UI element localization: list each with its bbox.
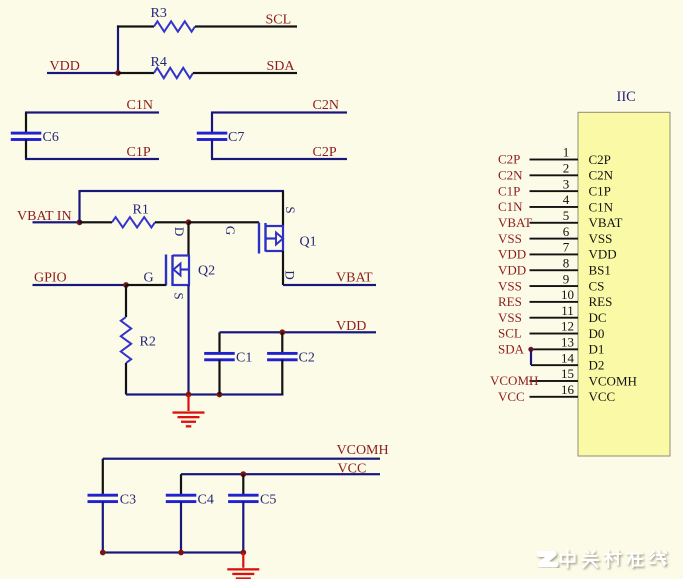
pin number 9 [563, 271, 570, 286]
svg-text:4: 4 [563, 192, 570, 207]
svg-text:16: 16 [561, 382, 575, 397]
wire top rail to Q1 source [80, 190, 285, 192]
wire R1 to node [155, 221, 189, 223]
net label C2N [313, 98, 339, 113]
node Q2 source / ground junction [186, 392, 192, 398]
svg-text:C1P: C1P [498, 183, 520, 198]
svg-text:S: S [172, 292, 187, 299]
wire R4 left segment [118, 72, 154, 74]
watermark text 中关村在线 [561, 551, 666, 568]
svg-text:VSS: VSS [589, 231, 613, 246]
net label GPIO [34, 271, 67, 286]
pin name BS1 (pin 8) [589, 263, 611, 278]
net label VDD at pin 7 [498, 247, 526, 262]
ground GND1 [173, 395, 205, 428]
svg-text:D1: D1 [589, 342, 605, 357]
pin name VBAT (pin 5) [589, 215, 623, 230]
wire C2N [211, 111, 347, 113]
wire C6 top lead [25, 113, 27, 134]
net label C2P at pin 1 [498, 152, 520, 167]
wire pin 16 stub [530, 396, 579, 398]
wire Q2 source [187, 285, 189, 395]
wire VBAT IN [33, 221, 80, 223]
svg-text:DC: DC [589, 310, 607, 325]
wire pin 12 stub [530, 333, 579, 335]
capacitor C2 [267, 351, 315, 366]
net label C1N [127, 98, 153, 113]
svg-text:G: G [144, 271, 154, 286]
net label VCC bottom [338, 462, 367, 477]
wire C2P [211, 158, 347, 160]
wire C1 top lead [218, 332, 220, 353]
pin name RES (pin 10) [589, 294, 613, 309]
wire pin 6 stub [530, 238, 579, 240]
pin number 1 [563, 145, 570, 160]
svg-text:VCOMH: VCOMH [337, 443, 389, 458]
wire C4 bottom lead [180, 502, 182, 553]
svg-text:BS1: BS1 [589, 263, 611, 278]
wire Q1 source [282, 191, 284, 226]
pin name C2P (pin 1) [589, 152, 611, 167]
svg-text:C2P: C2P [313, 145, 337, 160]
resistor R2 [121, 317, 156, 363]
transistor Q2 [165, 254, 215, 286]
node C3 rail junction [100, 550, 106, 556]
node GPIO/R2 junction [123, 282, 129, 288]
svg-text:R3: R3 [151, 6, 167, 21]
pin name C1P (pin 3) [589, 183, 611, 198]
pin label D of Q1 [282, 270, 297, 279]
wire C3 bottom lead [102, 502, 104, 553]
wire pin 9 stub [530, 285, 579, 287]
wire VDD mid rail [220, 331, 377, 333]
wire C7 top lead [211, 113, 213, 134]
svg-text:VDD: VDD [589, 247, 617, 262]
pin number 2 [563, 161, 570, 176]
node VBAT IN junction [77, 219, 83, 225]
pin name DC (pin 11) [589, 310, 607, 325]
svg-text:SCL: SCL [498, 326, 522, 341]
svg-text:CS: CS [589, 278, 605, 293]
pin name VCOMH (pin 15) [589, 373, 637, 388]
pin name D2 (pin 14) [589, 358, 605, 373]
svg-text:VCC: VCC [498, 389, 525, 404]
node C2/VDD junction [279, 329, 285, 335]
wire C7 bottom lead [211, 140, 213, 160]
svg-text:2: 2 [563, 161, 570, 176]
svg-text:11: 11 [561, 303, 574, 318]
node C5 rail junction [240, 550, 246, 556]
wire C1 bottom lead [218, 360, 220, 395]
svg-text:VCC: VCC [589, 389, 616, 404]
pin number 11 [561, 303, 574, 318]
wire pin 4 stub [530, 206, 579, 208]
svg-text:9: 9 [563, 271, 570, 286]
net label VBAT at pin 5 [498, 215, 532, 230]
net label SDA at pin 13 [498, 342, 525, 357]
wire VBAT [283, 284, 376, 286]
wire C5 bottom lead [242, 502, 244, 553]
node VDD junction [115, 70, 121, 76]
wire VDD to junction [47, 72, 118, 74]
net label SCL at pin 12 [498, 326, 522, 341]
pin number 14 [561, 350, 575, 365]
svg-text:C1N: C1N [589, 199, 614, 214]
svg-text:C7: C7 [228, 130, 244, 145]
pin number 12 [561, 319, 574, 334]
svg-text:RES: RES [498, 294, 522, 309]
svg-text:R1: R1 [133, 203, 149, 218]
svg-text:Q1: Q1 [300, 235, 317, 250]
svg-text:VSS: VSS [498, 231, 522, 246]
pin name VSS (pin 6) [589, 231, 613, 246]
capacitor C7 [197, 130, 245, 145]
net label VDD at pin 8 [498, 262, 526, 277]
wire C2 bottom lead [281, 360, 283, 395]
net label C1P at pin 3 [498, 183, 520, 198]
svg-text:VBAT: VBAT [498, 215, 532, 230]
net label VBAT IN [17, 209, 72, 224]
svg-text:8: 8 [563, 255, 570, 270]
svg-text:D: D [282, 270, 297, 279]
svg-text:VDD: VDD [498, 262, 526, 277]
svg-text:C3: C3 [120, 493, 136, 508]
pin name C1N (pin 4) [589, 199, 614, 214]
pin number 16 [561, 382, 575, 397]
net label VCC at pin 16 [498, 389, 525, 404]
svg-text:GPIO: GPIO [34, 271, 67, 286]
capacitor C5 [228, 493, 276, 508]
ground GND2 [227, 553, 259, 579]
pin number 5 [563, 208, 570, 223]
pin number 13 [561, 335, 574, 350]
wire pin 1 stub [530, 159, 579, 161]
pin label G of Q1 [223, 226, 238, 235]
transistor Q1 [258, 223, 317, 254]
wire VCOMH [103, 458, 380, 460]
capacitor C1 [204, 351, 252, 366]
wire C6 bottom lead [25, 140, 27, 160]
svg-text:D2: D2 [589, 358, 605, 373]
net label VSS at pin 9 [498, 278, 522, 293]
svg-text:C2N: C2N [313, 98, 339, 113]
net label SCL [266, 13, 292, 28]
svg-text:6: 6 [563, 224, 570, 239]
node R1/Q2 drain junction [186, 219, 192, 225]
wire R1 left segment [80, 221, 113, 223]
wire pin 15 stub [530, 380, 579, 382]
svg-text:R4: R4 [151, 55, 167, 70]
wire pin 7 stub [530, 253, 579, 255]
pin name D0 (pin 12) [589, 326, 605, 341]
wire GPIO [33, 284, 127, 286]
svg-text:IIC: IIC [617, 89, 636, 105]
svg-text:C2P: C2P [589, 152, 611, 167]
wire bottom rail [126, 393, 283, 395]
svg-text:D0: D0 [589, 326, 605, 341]
svg-text:D: D [172, 227, 187, 236]
wire node to Q1 gate [189, 221, 260, 223]
net label VCOMH bottom [337, 443, 389, 458]
svg-text:VSS: VSS [498, 310, 522, 325]
svg-text:C6: C6 [43, 130, 59, 145]
wire Q2 drain [187, 222, 189, 255]
net label RES at pin 10 [498, 294, 522, 309]
svg-text:VDD: VDD [498, 247, 526, 262]
node SDA junction at pin 13 [528, 347, 533, 352]
net label VBAT [336, 271, 373, 286]
svg-text:VBAT: VBAT [336, 271, 373, 286]
pin number 3 [563, 176, 570, 191]
capacitor C3 [88, 493, 137, 508]
wire R3 left segment [117, 25, 154, 27]
svg-text:G: G [223, 226, 238, 235]
svg-text:10: 10 [561, 287, 574, 302]
svg-text:SDA: SDA [267, 59, 296, 74]
svg-text:C1P: C1P [589, 183, 611, 198]
wire C4 top lead [180, 474, 182, 495]
svg-text:1: 1 [563, 145, 570, 160]
svg-text:15: 15 [561, 366, 574, 381]
svg-text:SCL: SCL [266, 13, 292, 28]
capacitor C6 [11, 130, 59, 145]
svg-text:VDD: VDD [336, 319, 366, 334]
net label VDD [50, 59, 80, 74]
svg-text:C2: C2 [299, 351, 315, 366]
wire R3 to SCL [195, 25, 297, 27]
wire pin 11 stub [530, 317, 579, 319]
svg-text:RES: RES [589, 294, 613, 309]
svg-text:C5: C5 [260, 493, 276, 508]
pin number 7 [563, 240, 570, 255]
pin name D1 (pin 13) [589, 342, 605, 357]
svg-text:C1: C1 [236, 351, 252, 366]
wire SDA to pin 14 [530, 349, 532, 365]
pin number 10 [561, 287, 574, 302]
wire pin 5 stub [530, 222, 579, 224]
svg-text:VBAT: VBAT [589, 215, 623, 230]
svg-text:C4: C4 [198, 493, 214, 508]
wire VCC [181, 473, 380, 475]
pin number 4 [563, 192, 570, 207]
svg-text:VCOMH: VCOMH [589, 373, 637, 388]
net label SDA [267, 59, 296, 74]
node C4 rail junction [178, 550, 184, 556]
wire pin 3 stub [530, 190, 579, 192]
svg-text:VSS: VSS [498, 278, 522, 293]
svg-text:SDA: SDA [498, 342, 525, 357]
pin name CS (pin 9) [589, 278, 605, 293]
wire pin 2 stub [530, 174, 579, 176]
svg-text:C2N: C2N [498, 168, 523, 183]
node C1 bottom junction [217, 392, 223, 398]
net label C1N at pin 4 [498, 199, 523, 214]
svg-text:3: 3 [563, 176, 570, 191]
pin name C2N (pin 2) [589, 168, 614, 183]
node C5/VCC junction [240, 471, 246, 477]
svg-text:13: 13 [561, 335, 574, 350]
net label VCOMH at pin 15 [490, 373, 538, 388]
pin number 15 [561, 366, 574, 381]
resistor R1 [112, 203, 155, 228]
svg-text:Q2: Q2 [198, 264, 215, 279]
wire R4 to SDA [193, 72, 297, 74]
svg-text:VDD: VDD [50, 59, 80, 74]
wire C5 top lead [242, 474, 244, 495]
wire pin 8 stub [530, 269, 579, 271]
wire GPIO node to Q2 gate [126, 284, 166, 286]
net label C2N at pin 2 [498, 168, 523, 183]
net label C1P [127, 145, 151, 160]
net label VDD mid [336, 319, 366, 334]
part label IIC [617, 89, 636, 105]
pin label D of Q2 [172, 227, 187, 236]
net label C2P [313, 145, 337, 160]
svg-text:VCOMH: VCOMH [490, 373, 538, 388]
svg-text:C2P: C2P [498, 152, 520, 167]
wire C2 top lead [281, 332, 283, 353]
capacitor C4 [166, 493, 214, 508]
resistor R3 [151, 6, 196, 32]
svg-text:7: 7 [563, 240, 570, 255]
svg-text:5: 5 [563, 208, 570, 223]
pin label G of Q2 [144, 271, 154, 286]
wire VDD vertical riser to R3 [117, 25, 119, 73]
pin number 6 [563, 224, 570, 239]
wire Q1 drain [282, 251, 284, 285]
wire C1P [25, 158, 159, 160]
svg-text:S: S [283, 206, 298, 213]
pin name VCC (pin 16) [589, 389, 616, 404]
net label VSS at pin 6 [498, 231, 522, 246]
svg-text:C1N: C1N [498, 199, 523, 214]
wire pin 10 stub [530, 301, 579, 303]
wire riser to top rail [78, 190, 80, 222]
wire bottom-section rail [103, 551, 244, 553]
svg-text:R2: R2 [140, 335, 156, 350]
net label VSS at pin 11 [498, 310, 522, 325]
svg-text:12: 12 [561, 319, 574, 334]
svg-text:C1P: C1P [127, 145, 151, 160]
pin name VDD (pin 7) [589, 247, 617, 262]
wire pin 14 stub [531, 364, 578, 366]
wire C1N [25, 111, 159, 113]
wire C3 top lead [102, 459, 104, 496]
svg-text:C1N: C1N [127, 98, 153, 113]
connector U1 body (IIC) [578, 112, 670, 456]
svg-text:14: 14 [561, 350, 575, 365]
wire R2 top lead [125, 285, 127, 317]
pin number 8 [563, 255, 570, 270]
wire pin 13 stub [530, 348, 579, 350]
wire R2 bottom lead [125, 363, 127, 395]
pin label S of Q2 [172, 292, 187, 299]
watermark logo [540, 554, 556, 565]
resistor R4 [151, 55, 194, 78]
svg-text:C2N: C2N [589, 168, 614, 183]
pin label S of Q1 [283, 206, 298, 213]
